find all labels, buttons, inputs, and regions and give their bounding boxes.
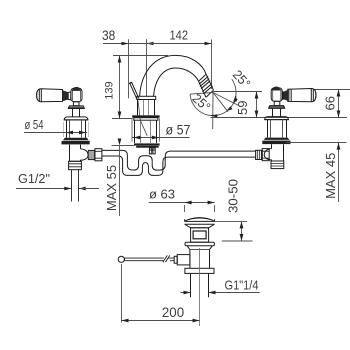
- dimension dia63: [149, 186, 215, 212]
- dimension 142: [147, 27, 212, 96]
- right valve outlet nut: [262, 149, 269, 161]
- svg-text:ø 54: ø 54: [25, 117, 44, 132]
- drain locknut: [185, 242, 214, 246]
- right valve shank below deck: [264, 144, 283, 161]
- svg-text:ø 63: ø 63: [149, 186, 175, 201]
- dimension 30-50: [215, 179, 253, 241]
- label G1/2: [16, 171, 99, 190]
- svg-text:142: 142: [170, 27, 189, 42]
- right supply hose: [102, 156, 256, 175]
- pop-up lever rod: [124, 255, 174, 262]
- right valve outlet threads: [256, 150, 263, 159]
- drain bottom flange: [185, 268, 214, 273]
- left valve base and washer: [62, 138, 90, 145]
- svg-text:MAX 55: MAX 55: [104, 165, 119, 211]
- left valve stem and collar: [68, 102, 84, 117]
- mixer base column: [135, 120, 157, 143]
- drain body upper: [191, 228, 209, 242]
- left handle taper: [63, 90, 69, 101]
- svg-text:30-50: 30-50: [225, 179, 240, 213]
- mixer hose nipples: [149, 148, 155, 154]
- left supply pipe G1/2: [72, 170, 79, 202]
- drain tailpipe: [191, 273, 209, 297]
- svg-text:200: 200: [162, 304, 184, 320]
- drain centerline: [199, 248, 201, 326]
- svg-text:139: 139: [103, 81, 115, 100]
- svg-text:38: 38: [102, 28, 115, 43]
- dimension dia57: [132, 119, 191, 142]
- dimension 66: [314, 90, 350, 118]
- mixer deck washer: [134, 143, 160, 147]
- dimension 139: [103, 56, 168, 119]
- spout aerator: [199, 74, 214, 97]
- right valve head: [271, 87, 283, 102]
- bidet spout: [140, 55, 207, 96]
- right supply adapter: [271, 161, 284, 169]
- deck line left: [112, 145, 135, 147]
- dimension 38: [102, 28, 154, 99]
- mixer flange: [132, 115, 159, 120]
- left valve head: [68, 87, 82, 102]
- mixer pop-up rod: [129, 82, 147, 136]
- left supply hose: [102, 150, 256, 170]
- svg-text:G1"1/4: G1"1/4: [225, 278, 259, 293]
- drain cap dome: [185, 218, 215, 228]
- dimension MAX 55: [104, 139, 121, 217]
- dimension 59: [211, 92, 348, 118]
- left valve outlet nut: [95, 149, 102, 161]
- drain body lower: [187, 246, 212, 268]
- fan arc (big sweep): [190, 79, 238, 118]
- right valve body column: [268, 120, 287, 138]
- left supply adapter: [69, 161, 82, 169]
- dimension 200: [122, 264, 200, 323]
- svg-text:ø 57: ø 57: [166, 121, 191, 137]
- label G1"1/4: [181, 278, 260, 295]
- angle fan rays: [190, 92, 262, 130]
- right handle taper: [283, 90, 288, 101]
- dimension dia54: [24, 117, 87, 135]
- drain side port: [174, 255, 190, 265]
- left valve body column: [63, 120, 88, 138]
- svg-text:59: 59: [235, 101, 250, 115]
- mixer body top plate: [137, 96, 156, 99]
- left valve flange: [64, 117, 88, 120]
- lever ball: [118, 256, 124, 262]
- left valve handle grip: [36, 89, 63, 102]
- svg-text:G1/2": G1/2": [18, 171, 50, 186]
- right valve stem and collar: [269, 101, 285, 116]
- svg-text:66: 66: [323, 96, 338, 110]
- right valve handle grip: [288, 89, 317, 102]
- dimension MAX 45: [323, 143, 341, 202]
- right valve base and washer: [262, 138, 290, 145]
- left valve outlet threads: [88, 150, 95, 159]
- mixer neck: [138, 100, 155, 116]
- right valve flange: [265, 117, 289, 120]
- svg-text:MAX 45: MAX 45: [323, 153, 338, 199]
- deck line right: [287, 142, 347, 144]
- left valve shank below deck: [70, 145, 89, 162]
